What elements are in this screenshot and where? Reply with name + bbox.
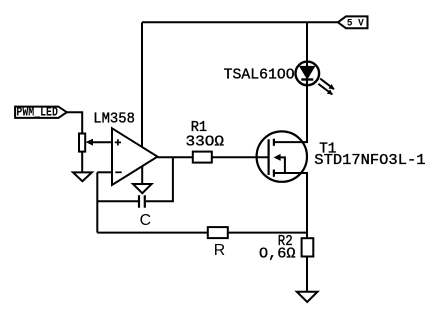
svg-text:5 V: 5 V [347,18,364,30]
potentiometer body [79,134,85,152]
op-amp minus tick [115,171,121,173]
wire PWM flag to potentiometer [67,112,82,133]
resistor R1 [193,152,212,163]
svg-text:C: C [140,212,151,229]
ground potentiometer [73,172,92,181]
svg-text:O,6Ω: O,6Ω [259,247,296,263]
T1 source tick [273,170,275,177]
T1 drain tick [273,139,275,146]
svg-text:STD17NFO3L-1: STD17NFO3L-1 [314,153,425,169]
op-amp U1 LM358 triangle [112,128,158,185]
wire op-amp V- pin to ground [141,163,143,185]
T1 body arrow link to source [280,157,285,173]
svg-text:LM358: LM358 [93,112,135,128]
transistor T1 body circle [257,131,307,181]
T1 body arrow [274,154,281,161]
wire op-amp V+ riser [141,22,143,150]
T1 gate plate [268,139,270,175]
svg-text:PWM_LED: PWM_LED [16,104,58,119]
ground bottom right [297,292,318,302]
input flag PWM_LED [15,107,67,118]
T1 source lead and wire down through R2 to ground [274,173,307,292]
wire LED anode/cathode vertical and drain lead [274,22,307,142]
wire potentiometer to ground [81,152,83,173]
wire top rail 5V [142,21,338,23]
wire minus input [97,171,112,173]
LED emission arrow 1 [320,79,334,90]
LED cathode bar [301,78,313,80]
ground op-amp [133,184,152,193]
wire capacitor left [97,200,139,202]
resistor R [208,227,228,238]
wire bottom net [97,232,307,234]
svg-text:TSAL61OO: TSAL61OO [224,67,295,83]
wire plus input from wiper [92,141,112,143]
T1 drain lead inside circle [274,141,302,143]
svg-text:33OΩ: 33OΩ [186,135,225,151]
power flag 5 V [338,16,368,28]
wire capacitor right and feedback riser [146,157,173,201]
LED emission arrow 2 [318,84,332,95]
LED triangle (anode) [300,66,315,78]
capacitor C plates [139,195,145,208]
op-amp plus tick [115,139,121,145]
resistor R2 [302,238,314,256]
svg-text:R: R [214,242,225,259]
wire gate net (op-amp output through R1 to gate) [158,156,269,158]
potentiometer wiper arrow [86,139,93,146]
wire left riser (minus net) [96,172,98,232]
LED D1 TSAL6100 body circle [296,62,320,86]
